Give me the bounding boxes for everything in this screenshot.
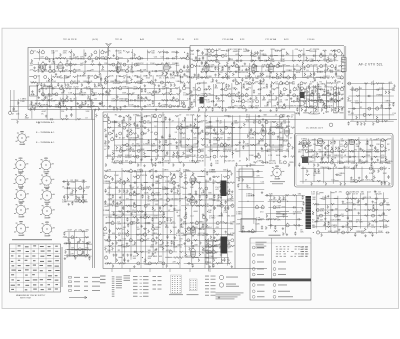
tube V3 — [116, 61, 121, 73]
svg-text:C14: C14 — [108, 187, 111, 189]
subcircuit sync upper left — [103, 113, 205, 167]
svg-text:L8: L8 — [157, 155, 159, 157]
svg-text:.047: .047 — [327, 96, 331, 98]
legend row 3 — [69, 285, 101, 287]
subcircuit volume control row — [9, 97, 102, 124]
svg-text:R2: R2 — [387, 144, 389, 146]
transformer T2 core — [300, 92, 305, 98]
svg-text:150K: 150K — [137, 172, 142, 174]
svg-text:.001: .001 — [74, 202, 78, 204]
svg-text:R2: R2 — [76, 89, 78, 91]
deflection yoke L1 — [306, 196, 312, 229]
wire — [10, 90, 12, 112]
svg-text:.0047: .0047 — [314, 114, 319, 116]
abbrev legend row — [153, 275, 162, 278]
svg-text:.01: .01 — [261, 151, 264, 153]
legend row 2 — [69, 281, 101, 283]
production change row — [205, 291, 216, 294]
svg-text:.0047: .0047 — [151, 146, 156, 148]
svg-text:470: 470 — [113, 83, 116, 85]
tube socket V1 — [14, 158, 29, 173]
svg-text:.01: .01 — [211, 67, 214, 69]
tube socket V5 — [14, 188, 29, 203]
tube V15 — [190, 195, 195, 207]
svg-text:R2: R2 — [253, 122, 255, 124]
subcircuit deflection lower — [300, 165, 390, 185]
svg-text:CTC-40 WA: CTC-40 WA — [222, 38, 234, 41]
parts list row — [112, 286, 115, 289]
svg-text:.0047: .0047 — [235, 151, 240, 153]
note block line — [256, 247, 265, 250]
safety item L2 — [252, 290, 264, 293]
sound IF enclosure — [28, 48, 190, 110]
tube V1 — [40, 61, 45, 73]
svg-text:.01: .01 — [205, 264, 208, 266]
svg-text:1 MEG: 1 MEG — [385, 101, 391, 103]
svg-text:680: 680 — [253, 56, 256, 58]
svg-text:680: 680 — [80, 59, 83, 61]
svg-text:R2: R2 — [355, 150, 357, 152]
svg-text:C14: C14 — [283, 122, 286, 124]
svg-text:2.2M: 2.2M — [229, 59, 234, 61]
svg-text:47: 47 — [388, 150, 390, 152]
flyback transformer core — [302, 157, 308, 163]
svg-text:150K: 150K — [130, 72, 135, 74]
svg-text:.0047: .0047 — [261, 100, 266, 102]
svg-text:1 MEG: 1 MEG — [108, 204, 114, 206]
parts list row — [112, 278, 115, 281]
svg-text:TPC 40: TPC 40 — [115, 39, 123, 41]
alignment note box — [341, 58, 346, 72]
tube socket V4 — [40, 173, 55, 188]
legend text — [124, 279, 131, 282]
svg-text:470: 470 — [329, 87, 332, 89]
svg-text:100K: 100K — [281, 49, 286, 51]
parts list row — [112, 282, 115, 285]
svg-text:C14: C14 — [190, 216, 193, 218]
svg-text:.047: .047 — [210, 82, 214, 84]
svg-text:L8: L8 — [266, 88, 268, 90]
svg-text:680: 680 — [298, 152, 301, 154]
resistor pack box — [181, 127, 198, 147]
svg-text:100K: 100K — [387, 163, 392, 165]
svg-text:C14: C14 — [380, 163, 383, 165]
svg-text:2.2M: 2.2M — [312, 222, 317, 224]
svg-text:150K: 150K — [190, 115, 195, 117]
bus wire — [94, 110, 96, 268]
parts table col text — [301, 247, 308, 257]
safety item R3 — [273, 295, 293, 298]
tube socket V8 — [40, 204, 55, 219]
legend text — [124, 274, 131, 277]
svg-text:.01: .01 — [275, 115, 278, 117]
svg-text:47: 47 — [299, 70, 301, 72]
svg-text:B — TERMINAL A.C.: B — TERMINAL A.C. — [36, 141, 55, 144]
tube V4 — [164, 62, 169, 74]
relay box — [241, 219, 256, 233]
svg-text:.01: .01 — [306, 78, 309, 80]
svg-text:.0047: .0047 — [114, 218, 119, 220]
wire stub — [189, 269, 191, 273]
svg-text:C14: C14 — [36, 75, 39, 77]
subcircuit video IF upper — [190, 48, 345, 65]
parts item 3 — [252, 261, 264, 264]
svg-text:C14: C14 — [79, 107, 82, 109]
parts list row — [116, 276, 122, 279]
parts item 8 — [273, 273, 286, 276]
svg-text:R2: R2 — [218, 49, 220, 51]
svg-text:L8: L8 — [69, 75, 71, 77]
svg-text:R2: R2 — [140, 83, 142, 85]
svg-text:.001: .001 — [87, 101, 91, 103]
svg-text:680: 680 — [140, 101, 143, 103]
IF shield wall — [344, 46, 346, 119]
svg-text:2.2M: 2.2M — [193, 90, 198, 92]
svg-text:L8: L8 — [279, 78, 281, 80]
tube V13 — [284, 125, 289, 137]
svg-text:100K: 100K — [111, 101, 116, 103]
tube socket V6 — [40, 188, 55, 203]
fine print — [216, 298, 235, 301]
svg-text:47: 47 — [207, 78, 209, 80]
tube V12 — [261, 125, 266, 137]
symbol legend row — [133, 295, 149, 298]
svg-text:680: 680 — [208, 193, 211, 195]
chart caption — [169, 293, 183, 296]
parts item 7 — [273, 268, 286, 271]
legend arrow — [69, 296, 87, 298]
tube layout chart — [171, 275, 182, 293]
svg-text:2.2M: 2.2M — [132, 212, 137, 214]
svg-text:.0047: .0047 — [64, 77, 69, 79]
note text — [342, 59, 345, 60]
svg-text:100K: 100K — [212, 172, 217, 174]
subcircuit horiz sweep — [179, 169, 235, 268]
parts list row — [112, 293, 115, 296]
svg-text:470: 470 — [216, 227, 219, 229]
svg-text:100K: 100K — [154, 200, 159, 202]
svg-text:47: 47 — [349, 194, 351, 196]
svg-text:R2: R2 — [220, 138, 222, 140]
svg-text:680: 680 — [276, 88, 279, 90]
svg-text:47: 47 — [367, 225, 369, 227]
svg-text:100K: 100K — [107, 155, 112, 157]
svg-text:100K: 100K — [76, 69, 81, 71]
abbrev legend row — [153, 279, 162, 282]
svg-text:150K: 150K — [122, 93, 127, 95]
parts table data grid — [276, 246, 309, 256]
svg-text:470: 470 — [82, 95, 85, 97]
svg-text:C14: C14 — [331, 180, 334, 182]
svg-text:R2: R2 — [275, 151, 277, 153]
svg-text:C14: C14 — [190, 54, 193, 56]
svg-text:470: 470 — [359, 222, 362, 224]
svg-text:47: 47 — [121, 155, 123, 157]
svg-text:.001: .001 — [388, 82, 392, 84]
subcircuit convergence network — [311, 191, 391, 237]
svg-text:100K: 100K — [162, 189, 167, 191]
svg-text:.047: .047 — [70, 101, 74, 103]
svg-text:2.2M: 2.2M — [147, 93, 152, 95]
svg-text:.0047: .0047 — [296, 105, 301, 107]
wire — [13, 90, 15, 112]
svg-text:.01: .01 — [90, 81, 93, 83]
resistor pack box — [205, 127, 232, 147]
svg-text:C14: C14 — [295, 49, 298, 51]
subcircuit high voltage cage top — [347, 80, 396, 125]
svg-text:680: 680 — [227, 216, 230, 218]
svg-text:R2: R2 — [115, 115, 117, 117]
svg-text:2.2M: 2.2M — [51, 101, 56, 103]
svg-text:R2: R2 — [151, 170, 153, 172]
note text — [342, 62, 345, 63]
resistor pack box — [270, 127, 283, 147]
note text — [342, 68, 345, 69]
svg-text:47: 47 — [356, 194, 358, 196]
svg-text:680: 680 — [387, 205, 390, 207]
svg-text:.001: .001 — [207, 56, 211, 58]
svg-text:.0047: .0047 — [243, 51, 248, 53]
svg-text:100K: 100K — [276, 155, 281, 157]
production change row — [205, 281, 216, 284]
svg-text:150K: 150K — [20, 101, 25, 103]
wire — [140, 112, 142, 167]
svg-text:C14: C14 — [311, 194, 314, 196]
svg-text:.001: .001 — [288, 70, 292, 72]
wire stub — [129, 269, 131, 273]
svg-text:TPC 40: TPC 40 — [63, 39, 71, 41]
svg-text:C14: C14 — [130, 189, 133, 191]
svg-text:.0047: .0047 — [114, 206, 119, 208]
note block line — [256, 243, 264, 246]
svg-text:L8: L8 — [214, 106, 216, 108]
svg-text:47: 47 — [85, 257, 87, 259]
svg-text:2.2M: 2.2M — [126, 181, 131, 183]
svg-text:.0047: .0047 — [234, 122, 239, 124]
svg-text:R2: R2 — [123, 51, 125, 53]
svg-text:470: 470 — [184, 177, 187, 179]
symbol legend row — [133, 278, 149, 281]
svg-text:2.2M: 2.2M — [226, 161, 231, 163]
tube socket V2 — [39, 158, 54, 173]
svg-text:470: 470 — [255, 108, 258, 110]
svg-text:.047: .047 — [51, 53, 55, 55]
svg-text:.01: .01 — [132, 224, 135, 226]
voltage chart table — [10, 244, 61, 292]
safety item R2 — [273, 290, 290, 293]
tube layout chart small — [189, 279, 197, 291]
svg-text:PIX IF: PIX IF — [71, 39, 78, 41]
svg-text:2.2M: 2.2M — [351, 163, 356, 165]
production change row — [205, 275, 216, 278]
svg-text:2.2M: 2.2M — [271, 49, 276, 51]
parts list row — [112, 275, 115, 278]
svg-text:.01: .01 — [45, 89, 48, 91]
svg-text:L8: L8 — [176, 212, 178, 214]
svg-text:C14: C14 — [16, 113, 19, 115]
subcircuit vert sweep — [103, 168, 181, 267]
svg-text:R2: R2 — [118, 250, 120, 252]
svg-text:L8: L8 — [78, 242, 80, 244]
tube V10 — [349, 139, 355, 145]
svg-text:1 MEG: 1 MEG — [121, 247, 127, 249]
svg-text:.047: .047 — [213, 140, 217, 142]
wire — [162, 168, 164, 268]
svg-text:680: 680 — [223, 151, 226, 153]
circled note 1 — [219, 275, 238, 279]
svg-text:150K: 150K — [88, 244, 93, 246]
subcircuit audio output column — [205, 238, 218, 271]
svg-text:470: 470 — [261, 84, 264, 86]
svg-text:470: 470 — [231, 161, 234, 163]
svg-text:C14: C14 — [196, 157, 199, 159]
svg-text:C14: C14 — [392, 113, 395, 115]
svg-text:680: 680 — [132, 151, 135, 153]
svg-text:C14: C14 — [186, 115, 189, 117]
svg-text:L8: L8 — [73, 87, 75, 89]
safety item L1 — [252, 284, 264, 287]
svg-text:CTC 44 WA: CTC 44 WA — [265, 38, 277, 41]
svg-text:R2: R2 — [65, 69, 67, 71]
label — [276, 214, 287, 215]
parts item 2 — [252, 254, 264, 257]
svg-text:680: 680 — [312, 199, 315, 201]
svg-text:150K: 150K — [355, 103, 360, 105]
svg-text:C14: C14 — [367, 191, 370, 193]
svg-text:L8: L8 — [299, 95, 301, 97]
svg-text:680: 680 — [337, 70, 340, 72]
svg-text:47: 47 — [104, 149, 106, 151]
label — [276, 211, 289, 212]
svg-text:.047: .047 — [258, 94, 262, 96]
antenna — [106, 43, 112, 56]
subcircuit deflection upper — [298, 137, 393, 167]
label — [270, 181, 285, 182]
fine print — [216, 296, 238, 299]
svg-text:L8: L8 — [306, 70, 308, 72]
svg-text:680: 680 — [369, 152, 372, 154]
svg-text:.01: .01 — [40, 107, 43, 109]
svg-text:.001: .001 — [117, 83, 121, 85]
svg-text:100K: 100K — [126, 83, 131, 85]
svg-text:100K: 100K — [350, 182, 355, 184]
svg-text:2.2M: 2.2M — [71, 182, 76, 184]
transformer T1 core — [200, 97, 204, 104]
svg-text:.047: .047 — [165, 155, 169, 157]
svg-text:.01: .01 — [172, 221, 175, 223]
svg-text:L8: L8 — [122, 229, 124, 231]
svg-text:.047: .047 — [235, 54, 239, 56]
tube socket V10 — [40, 222, 55, 237]
svg-text:.0047: .0047 — [319, 152, 324, 154]
svg-text:150K: 150K — [146, 77, 151, 79]
abbrev legend row — [153, 288, 162, 291]
video IF top rail — [190, 45, 344, 47]
svg-text:.01: .01 — [380, 94, 383, 96]
svg-text:2.2M: 2.2M — [62, 202, 67, 204]
svg-text:100K: 100K — [133, 89, 138, 91]
tube V6 — [251, 62, 256, 74]
svg-text:680: 680 — [334, 231, 337, 233]
svg-text:100K: 100K — [74, 83, 79, 85]
svg-text:.0047: .0047 — [272, 100, 277, 102]
svg-text:.01: .01 — [80, 65, 83, 67]
svg-text:.001: .001 — [208, 212, 212, 214]
svg-text:470: 470 — [197, 235, 200, 237]
svg-text:47: 47 — [161, 63, 163, 65]
svg-text:2.2M: 2.2M — [366, 155, 371, 157]
svg-text:47: 47 — [135, 140, 137, 142]
tube socket V-B5 — [16, 131, 30, 145]
svg-text:680: 680 — [330, 61, 333, 63]
subcircuit yoke drive wires — [265, 194, 305, 236]
svg-text:.01: .01 — [341, 216, 344, 218]
svg-text:150K: 150K — [358, 163, 363, 165]
svg-text:100K: 100K — [144, 193, 149, 195]
subcircuit filter caps lower — [63, 230, 90, 260]
ground — [218, 296, 220, 299]
svg-text:2.2M: 2.2M — [147, 105, 152, 107]
tube socket V9 — [14, 221, 29, 236]
svg-text:.047: .047 — [336, 112, 340, 114]
svg-text:1 MEG: 1 MEG — [163, 170, 169, 172]
ground — [374, 190, 376, 193]
svg-text:470: 470 — [82, 182, 85, 184]
svg-text:.01: .01 — [148, 252, 151, 254]
svg-text:2.2M: 2.2M — [278, 128, 283, 130]
svg-text:.047: .047 — [40, 57, 44, 59]
svg-text:.047: .047 — [319, 220, 323, 222]
svg-text:.001: .001 — [155, 204, 159, 206]
legend text — [124, 277, 131, 280]
svg-text:1 MEG: 1 MEG — [256, 220, 262, 222]
svg-text:C14: C14 — [286, 151, 289, 153]
shield box — [30, 86, 38, 96]
svg-text:680: 680 — [165, 204, 168, 206]
svg-text:L8: L8 — [337, 155, 339, 157]
svg-text:2.2M: 2.2M — [223, 212, 228, 214]
wire — [179, 168, 181, 268]
svg-text:470: 470 — [260, 212, 263, 214]
svg-text:.047: .047 — [349, 203, 353, 205]
svg-text:C14: C14 — [227, 78, 230, 80]
svg-text:MEASURED AT 120V AC SUPPLY: MEASURED AT 120V AC SUPPLY — [16, 294, 46, 297]
note text — [342, 65, 345, 66]
svg-text:C14: C14 — [269, 196, 272, 198]
svg-text:680: 680 — [339, 175, 342, 177]
svg-text:47: 47 — [220, 122, 222, 124]
svg-text:47: 47 — [168, 210, 170, 212]
subcircuit sync upper right — [204, 114, 295, 167]
svg-text:47: 47 — [108, 210, 110, 212]
svg-text:C14: C14 — [108, 195, 111, 197]
svg-text:A-M: A-M — [140, 38, 144, 41]
subcircuit sound IF upper — [30, 49, 189, 63]
tube V14 — [190, 174, 195, 186]
svg-text:.0047: .0047 — [67, 230, 72, 232]
subcircuit AGC section — [296, 85, 346, 116]
svg-text:680: 680 — [115, 187, 118, 189]
legend text — [100, 282, 106, 283]
svg-text:2.2M: 2.2M — [194, 143, 199, 145]
svg-text:L8: L8 — [179, 241, 181, 243]
svg-text:.0047: .0047 — [280, 61, 285, 63]
svg-text:.0047: .0047 — [24, 118, 29, 120]
svg-text:.0047: .0047 — [309, 161, 314, 163]
svg-text:TPC 44: TPC 44 — [177, 39, 185, 41]
parts list row — [112, 288, 115, 291]
tube V16 — [190, 225, 195, 237]
